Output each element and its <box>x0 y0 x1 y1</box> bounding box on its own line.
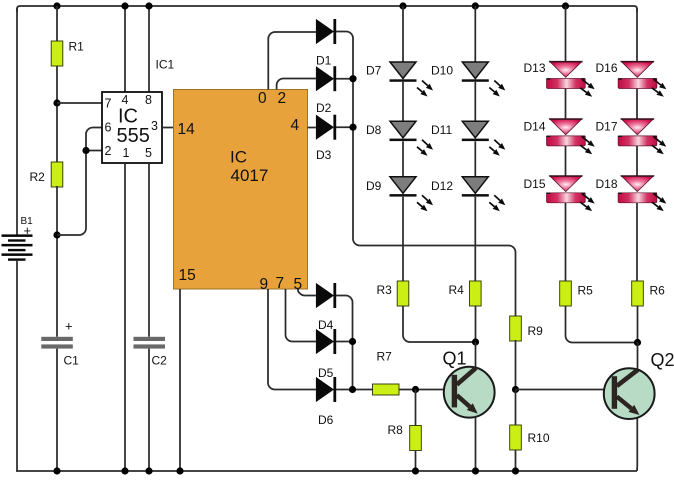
resistor R4 <box>470 281 482 306</box>
svg-text:R2: R2 <box>30 170 46 184</box>
LED D11 <box>462 121 488 138</box>
svg-text:R1: R1 <box>69 40 85 54</box>
wire R5 to Q2 collector node <box>566 306 638 343</box>
wire pin9 of IC2 to D6 anode <box>268 289 316 390</box>
junction ground rail at pin15 <box>176 467 183 474</box>
resistor R6 <box>632 281 644 306</box>
resistor R8 <box>410 426 422 451</box>
junction Q2 collector node <box>634 339 641 346</box>
svg-text:R3: R3 <box>377 283 393 297</box>
junction Q1 collector node <box>472 338 479 345</box>
wire Q1 emitter to ground <box>475 417 477 472</box>
LED D17 <box>621 119 654 135</box>
wire Q1 collector <box>475 342 477 368</box>
wire rail to D7 <box>402 6 404 62</box>
junction cathode bus at D5 <box>349 338 356 345</box>
LED D18 <box>621 176 654 192</box>
resistor R5 <box>560 281 572 306</box>
svg-text:R6: R6 <box>650 284 666 298</box>
svg-text:9: 9 <box>260 276 269 293</box>
junction top rail at LED column 3 <box>562 2 569 9</box>
wire D6 cathode to R7 <box>336 389 373 391</box>
svg-text:D15: D15 <box>524 177 546 191</box>
capacitor C2 <box>134 337 166 349</box>
wire D12 to R4 <box>474 197 476 281</box>
svg-text:7: 7 <box>276 275 285 292</box>
wire bottom ground rail <box>16 470 637 472</box>
junction pin2 pin6 link <box>82 147 89 154</box>
wire D11 to D12 <box>474 141 476 177</box>
resistor R10 <box>510 425 522 450</box>
svg-text:R7: R7 <box>377 350 393 364</box>
svg-text:555: 555 <box>117 125 150 147</box>
svg-text:0: 0 <box>258 90 267 107</box>
wire D5 cathode stub <box>336 341 353 343</box>
svg-text:1: 1 <box>123 146 130 160</box>
battery B1 <box>2 234 33 260</box>
wire pin5 of IC1 to C2 <box>148 163 150 337</box>
junction top rail at R1 column <box>53 2 60 9</box>
svg-text:2: 2 <box>278 90 287 107</box>
wire D16 to D17 <box>636 89 638 119</box>
wire pin4 of IC2 to D3 anode <box>308 127 316 129</box>
svg-text:4: 4 <box>291 117 300 134</box>
wire R6 to Q2 collector node <box>637 306 639 343</box>
LED D9 <box>390 177 416 194</box>
svg-text:Q2: Q2 <box>651 350 674 370</box>
diode D2 <box>316 66 334 91</box>
wire D17 to D18 <box>636 146 638 176</box>
wire D8 to D9 <box>402 141 404 177</box>
diode D5 <box>316 329 334 354</box>
diode D6 <box>316 377 334 402</box>
diode D1 <box>316 19 334 44</box>
LED D10 <box>462 62 488 79</box>
svg-text:4017: 4017 <box>231 166 269 185</box>
svg-text:D1: D1 <box>316 54 332 68</box>
wire C2 to ground <box>148 349 150 471</box>
counter IC2 4017 body <box>174 90 308 290</box>
wire R10 column <box>515 390 517 426</box>
wire D9 to R3 <box>402 197 404 281</box>
svg-text:8: 8 <box>145 93 152 107</box>
wire R2 to C1 node <box>56 186 58 337</box>
junction top rail at pin4 <box>121 2 128 9</box>
wire rail to D10 <box>474 6 476 62</box>
junction cathode bus at D6 <box>349 386 356 393</box>
wire D14 to D15 <box>565 146 567 176</box>
wire pin15 of IC2 to ground <box>179 289 181 471</box>
svg-text:D17: D17 <box>596 120 618 134</box>
svg-text:R9: R9 <box>528 324 544 338</box>
LED D12 <box>462 177 488 194</box>
svg-text:D9: D9 <box>366 179 382 193</box>
wire R3 to Q1 collector node <box>403 306 476 342</box>
junction ground rail at C2 <box>145 467 152 474</box>
svg-text:15: 15 <box>179 267 196 284</box>
svg-text:D16: D16 <box>596 61 618 75</box>
transistor Q2 <box>604 368 655 419</box>
diode D3 <box>316 115 334 140</box>
svg-text:D18: D18 <box>596 177 618 191</box>
junction ground rail at R10 <box>512 467 519 474</box>
junction R1 bottom pin7 node <box>53 99 60 106</box>
wire rail to D13 <box>565 6 567 61</box>
svg-text:D13: D13 <box>524 61 546 75</box>
junction ground rail at C1 <box>53 467 60 474</box>
junction top rail at pin8 <box>145 2 152 9</box>
svg-text:C1: C1 <box>64 354 80 368</box>
wire rail corner to D16 <box>636 8 638 61</box>
wire pin0 of IC2 to D1 anode <box>268 32 316 90</box>
resistor R3 <box>397 281 409 306</box>
wire pin5 of IC2 to D4 anode <box>298 289 316 296</box>
svg-text:6: 6 <box>105 121 112 135</box>
wire D10 to D11 <box>474 82 476 121</box>
wire D7 to D8 <box>402 82 404 121</box>
wire top supply rail V+ <box>17 6 637 12</box>
svg-text:R4: R4 <box>449 283 465 297</box>
wire left battery branch upper <box>16 8 18 236</box>
wire R9 to base node <box>515 340 517 390</box>
svg-text:Q1: Q1 <box>443 349 467 369</box>
svg-text:5: 5 <box>145 146 152 160</box>
svg-text:D12: D12 <box>431 179 453 193</box>
LED D8 <box>390 121 416 138</box>
junction cathode bus at D3 <box>349 124 356 131</box>
capacitor C1 <box>41 337 73 349</box>
svg-text:R10: R10 <box>528 431 550 445</box>
junction ground rail at R8 <box>412 467 419 474</box>
svg-text:D5: D5 <box>318 366 334 380</box>
transistor Q1 <box>444 367 495 418</box>
wire R1 column from rail <box>56 6 58 41</box>
wire R8 to ground <box>415 451 417 472</box>
wire Q2 emitter to ground rail <box>636 418 638 471</box>
wire pin2 of IC2 to D2 anode <box>277 79 316 90</box>
junction ground rail at pin1 <box>121 467 128 474</box>
resistor R7 <box>373 384 400 395</box>
wire D15 to R5 <box>565 203 567 281</box>
junction R2 C1 threshold node <box>53 231 60 238</box>
wire R10 to ground <box>515 450 517 471</box>
wire base node to Q2 <box>516 389 604 391</box>
wire pin7 of IC2 to D5 anode <box>286 289 316 342</box>
wire R8 column <box>415 390 417 426</box>
wire pin7 of IC1 <box>57 102 102 104</box>
wire R1 to R2 <box>56 66 58 162</box>
svg-text:4: 4 <box>122 93 129 107</box>
resistor R2 <box>51 162 63 187</box>
svg-text:D7: D7 <box>366 64 382 78</box>
svg-text:D6: D6 <box>318 413 334 427</box>
svg-text:D8: D8 <box>366 123 382 137</box>
junction R7 R8 base node <box>412 386 419 393</box>
svg-text:3: 3 <box>151 119 158 133</box>
wire left battery branch lower <box>16 261 18 471</box>
LED D16 <box>621 61 654 77</box>
wire C1 to ground <box>56 349 58 471</box>
svg-text:C2: C2 <box>152 354 168 368</box>
wire pin8 of IC1 to rail <box>148 6 150 92</box>
LED D14 <box>550 119 583 135</box>
svg-text:R5: R5 <box>578 284 594 298</box>
svg-text:IC: IC <box>230 148 247 167</box>
wire Q2 collector <box>637 343 639 370</box>
LED D15 <box>550 176 583 192</box>
svg-text:2: 2 <box>105 144 112 158</box>
wire R7 to Q1 base <box>399 389 444 391</box>
svg-text:IC1: IC1 <box>156 58 175 72</box>
junction cathode bus at D2 <box>349 75 356 82</box>
svg-text:7: 7 <box>105 97 112 111</box>
svg-text:D10: D10 <box>431 64 453 78</box>
op-amp timer IC1 555 body <box>102 92 162 163</box>
svg-text:D4: D4 <box>318 318 334 332</box>
junction R9 R10 Q2 base node <box>512 386 519 393</box>
svg-text:D14: D14 <box>524 120 546 134</box>
svg-text:D3: D3 <box>316 148 332 162</box>
svg-text:14: 14 <box>178 121 196 138</box>
diode D4 <box>316 283 334 308</box>
resistor R1 <box>51 41 63 66</box>
wire threshold node to pins 2 6 of IC1 <box>57 128 102 236</box>
wire D18 to R6 <box>636 203 638 281</box>
junction ground rail at Q1 emitter <box>472 467 479 474</box>
junction top rail at LED column 2 <box>472 2 479 9</box>
svg-text:+: + <box>24 223 32 238</box>
svg-text:D11: D11 <box>431 123 452 137</box>
wire pin3 IC1 to pin14 IC2 <box>162 127 174 129</box>
wire D1 cathode bus to R9 top <box>336 32 516 317</box>
wire pin1 of IC1 to ground <box>124 163 126 471</box>
wire D13 to D14 <box>565 89 567 119</box>
junction top rail at LED column 1 <box>399 2 406 9</box>
LED D13 <box>550 61 583 77</box>
wire D3 cathode stub <box>336 126 353 128</box>
svg-text:R8: R8 <box>388 423 404 437</box>
svg-text:D2: D2 <box>316 101 332 115</box>
wire pin4 of IC1 to rail <box>124 6 126 92</box>
wire R4 to Q1 collector node <box>475 306 477 342</box>
svg-text:+: + <box>65 319 73 334</box>
LED D7 <box>390 62 416 79</box>
wire D2 cathode stub <box>336 78 353 80</box>
wire D4 cathode bus down <box>336 296 353 390</box>
resistor R9 <box>510 316 522 341</box>
